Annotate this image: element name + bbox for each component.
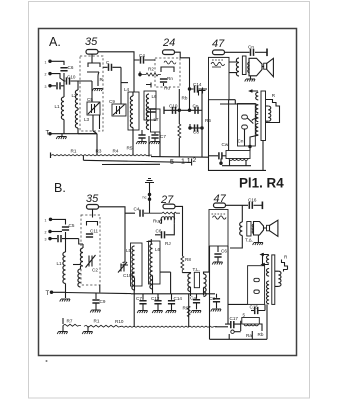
plate border frame [39, 29, 297, 356]
switch box B [248, 266, 265, 305]
svg-text:5: 5 [243, 313, 246, 318]
coil L3 [77, 108, 79, 110]
filament winding box [226, 151, 250, 159]
svg-text:hc: hc [143, 196, 147, 200]
svg-text:L4: L4 [124, 87, 130, 92]
coil L7 [146, 107, 149, 130]
capacitor C5B [62, 227, 69, 230]
svg-text:Cw: Cw [222, 142, 229, 147]
tube 35B top cap [87, 205, 99, 210]
capacitor C6 [60, 68, 67, 71]
svg-text:C16: C16 [248, 198, 257, 203]
terminal 2B [49, 230, 51, 232]
svg-text:L6: L6 [155, 247, 161, 252]
field winding seg1 [256, 92, 259, 100]
T.L. right winding [204, 274, 207, 297]
voice coil gap box [264, 63, 267, 69]
transformer core tall [261, 91, 266, 141]
antenna T bar [266, 49, 268, 57]
capacitor C13m [148, 109, 155, 112]
winding bottom lead [250, 135, 258, 150]
battery line 1 [151, 100, 266, 171]
variable capacitor C9 [112, 104, 126, 116]
svg-text:R10: R10 [115, 319, 124, 324]
ground at input [61, 134, 63, 136]
output transformer B core [247, 222, 251, 237]
svg-text:47: 47 [212, 38, 225, 50]
tube 47B top cap [214, 203, 226, 208]
T.L. core [194, 272, 199, 287]
svg-text:C10: C10 [67, 75, 76, 80]
wire cap into tube [91, 54, 93, 63]
capacitor C14 [190, 88, 208, 90]
riser from L6B [152, 290, 154, 294]
svg-text:C4: C4 [139, 53, 145, 58]
tube 47 grid dashes [212, 59, 224, 61]
field coil arrow 1 [250, 90, 259, 93]
svg-text:3: 3 [45, 85, 47, 89]
voice coil gap B [267, 225, 270, 231]
svg-text:C11: C11 [90, 229, 99, 234]
ground under driver [250, 76, 252, 79]
speaker B driver bell [254, 222, 264, 236]
transformer B core tall [272, 255, 275, 305]
variable cap C10B [118, 262, 127, 273]
svg-text:B.: B. [54, 181, 66, 195]
grid coil B [80, 248, 83, 266]
svg-text:L3: L3 [84, 117, 90, 122]
svg-text:C6: C6 [221, 249, 227, 254]
svg-text:C6: C6 [156, 229, 162, 234]
bottom bus B wavy [120, 326, 217, 327]
svg-text:Cn: Cn [193, 104, 199, 109]
coil box L6 [144, 91, 156, 120]
filament winding box B [242, 318, 259, 325]
tube 47 top cap [213, 50, 225, 55]
capacitor C4 [134, 59, 155, 61]
pilot pill 2 [242, 125, 248, 129]
wire cap B right [99, 207, 136, 263]
winding above 27 [160, 217, 175, 224]
svg-text:R1: R1 [71, 149, 77, 154]
coil L2B lower [80, 266, 82, 269]
wire pill top to L4 box [133, 60, 135, 92]
field winding seg2 [256, 105, 259, 113]
pilot pill B1 [254, 278, 259, 281]
grid bar B [147, 239, 152, 244]
svg-text:Cn: Cn [248, 45, 254, 50]
resistor R8 riser [181, 256, 184, 273]
tube 47 heater [211, 62, 225, 65]
winding tap to switch [252, 118, 259, 121]
svg-text:L5: L5 [126, 248, 132, 253]
svg-text:R4: R4 [113, 149, 119, 154]
ground under driver B [257, 235, 259, 242]
battery line 2 [83, 159, 191, 166]
svg-text:C2: C2 [92, 268, 98, 273]
plate riser B down [241, 205, 243, 222]
svg-text:L1: L1 [57, 261, 63, 266]
svg-text:Ca: Ca [190, 296, 196, 301]
terminal 3 [49, 85, 51, 87]
tube 24 heater squiggle [164, 61, 176, 64]
svg-text:35: 35 [86, 193, 99, 205]
primary winding B [266, 256, 269, 264]
cathode cap stub left [199, 88, 206, 96]
capacitor C11 left [138, 135, 145, 138]
risers to bus [97, 132, 160, 157]
capacitor C12B [157, 294, 159, 300]
capacitor C10 input [64, 80, 78, 82]
svg-text:Rn: Rn [167, 76, 173, 81]
svg-text:Ru: Ru [153, 219, 159, 224]
bottom wire B right [210, 246, 268, 339]
pill2 lead [244, 129, 246, 146]
risers to bus B [134, 290, 189, 328]
wire into switch box [228, 303, 248, 305]
capacitor C7 [154, 132, 156, 134]
pilot pill 1 [242, 115, 248, 119]
svg-text:C7: C7 [136, 296, 142, 301]
winding leads [222, 160, 251, 166]
capacitor CaB [196, 294, 198, 299]
tube 27 top cap [163, 204, 175, 209]
riser from speaker area [262, 253, 264, 266]
coil L6 [146, 94, 149, 117]
svg-text:R5: R5 [127, 146, 133, 151]
svg-text:T: T [46, 291, 50, 297]
svg-text:L2: L2 [72, 93, 78, 98]
svg-text:C6: C6 [68, 65, 74, 70]
capacitor C7B [142, 294, 144, 300]
coil L4 [130, 96, 133, 128]
tube 35 plate hook [88, 63, 100, 67]
coil box L4 [128, 92, 139, 130]
capacitor Cn out [251, 49, 254, 56]
wire 47 cap to Cn [225, 51, 250, 53]
capacitor C13 [57, 82, 60, 89]
field winding seg4 [256, 124, 259, 135]
svg-text:C14: C14 [193, 82, 202, 87]
wire grid to coil [79, 239, 83, 244]
svg-text:1: 1 [187, 158, 191, 165]
grid leak wavy to 27 [144, 212, 180, 214]
grid capacitor Rn [160, 79, 167, 82]
svg-text:C9: C9 [100, 299, 106, 304]
caps row top wire [131, 293, 215, 295]
capacitor C10b [173, 107, 176, 114]
svg-text:C9: C9 [109, 99, 115, 104]
tube 47 box [209, 57, 230, 99]
coil box L7 [151, 109, 161, 132]
svg-text:R1: R1 [94, 319, 100, 324]
T bar B [261, 202, 263, 210]
tube 47B box [209, 210, 228, 247]
capacitor Cn [191, 109, 202, 111]
svg-text:A.: A. [49, 35, 61, 49]
middle winding B [266, 269, 269, 277]
tube 24 plate hook [161, 67, 174, 72]
capacitor C8B [216, 294, 218, 298]
ground at TB [60, 299, 70, 302]
output transformer primary [236, 58, 239, 76]
terminal 1B [49, 218, 51, 220]
field winding seg3 [256, 114, 259, 122]
battery line 3 [102, 163, 160, 165]
output transformer core [242, 56, 246, 75]
svg-text:2: 2 [45, 231, 47, 235]
winding feed wire [220, 104, 258, 105]
svg-text:Rb: Rb [182, 96, 188, 101]
tube 35B plate hook [87, 222, 98, 226]
capacitor Cw [209, 155, 219, 157]
speaker cone B [270, 220, 278, 236]
svg-text:24: 24 [162, 37, 175, 49]
capacitor plate bar [139, 72, 141, 77]
tube 35B shield dashed [81, 215, 100, 285]
capacitor C8 [190, 127, 202, 129]
bus to riser joint [215, 326, 228, 328]
svg-text:C4: C4 [134, 207, 140, 212]
svg-text:5: 5 [170, 159, 174, 166]
svg-text:C10: C10 [123, 273, 132, 278]
svg-text:C17: C17 [230, 316, 239, 321]
svg-text:R3: R3 [96, 149, 102, 154]
switch lever [247, 118, 253, 124]
capacitor C16 [249, 202, 252, 209]
wire top of R5 riser [178, 89, 180, 100]
ground bus left [49, 133, 97, 135]
tube 35 shield (dashed) [80, 56, 103, 131]
svg-text:RJ: RJ [165, 241, 171, 246]
riser tube47B bottom [227, 246, 229, 324]
coil L6B [150, 244, 153, 276]
terminal circles B [231, 330, 234, 333]
grid return bar [146, 83, 164, 88]
svg-text:C12: C12 [151, 296, 160, 301]
connector L1 to tube [73, 264, 81, 266]
terminal 1 [49, 60, 51, 62]
rectifier winding B [266, 281, 269, 304]
riser x170.6 [160, 272, 171, 294]
svg-text:T.L.: T.L. [193, 267, 200, 272]
svg-text:1: 1 [45, 60, 47, 64]
wavy bias chain [51, 155, 152, 156]
power transformer B top arrow 1 [261, 253, 269, 256]
coil L1B [63, 252, 66, 284]
wire 24 cap to plate riser [175, 52, 190, 110]
output transformer B winding [240, 222, 243, 236]
grid dashes 47B [212, 213, 226, 215]
svg-text:Cn: Cn [238, 139, 244, 144]
winding leads B [241, 321, 262, 331]
plate wires to transformer [229, 62, 237, 73]
svg-text:R7: R7 [67, 319, 73, 324]
svg-text:Ru: Ru [164, 86, 170, 91]
svg-text:C7: C7 [160, 134, 166, 139]
speaker cone [267, 58, 274, 76]
capacitor C4B [140, 210, 143, 217]
terminal 3B [49, 237, 51, 239]
bottom left: terminal TB [50, 291, 52, 293]
capacitor C3B [58, 235, 61, 242]
svg-text:C8: C8 [193, 130, 199, 135]
speaker driver bell [249, 58, 262, 76]
svg-text:3: 3 [45, 238, 47, 242]
coil L5B [132, 246, 135, 278]
svg-text:R8: R8 [185, 257, 191, 262]
svg-text:T.Δ.: T.Δ. [245, 238, 253, 243]
switch box [238, 104, 256, 147]
wire to C16 [226, 204, 249, 206]
svg-text:C14: C14 [174, 296, 183, 301]
tube 35 grid bar [87, 72, 99, 86]
wire 27 cap to plate riser [175, 206, 183, 256]
svg-text:35: 35 [85, 36, 98, 48]
svg-text:R2: R2 [148, 67, 154, 72]
ground cathode 35 [92, 89, 102, 92]
capacitor C11B [86, 234, 93, 237]
riser to varcap C9 [120, 67, 122, 104]
resistor R7B [62, 318, 64, 324]
coil L1 [61, 97, 64, 120]
wire shelf [121, 82, 128, 84]
cathode lead to bus [99, 285, 101, 292]
wire 35 cap to C4 [98, 52, 134, 60]
tank box right edge [78, 81, 100, 129]
svg-text:Pl1. R4: Pl1. R4 [239, 176, 284, 191]
T.L. transformer left winding [188, 274, 191, 292]
terminal 2 [49, 72, 51, 74]
wire L5 to varcap [121, 264, 128, 266]
svg-text:Rb: Rb [258, 332, 264, 337]
coupling capacitor C [103, 66, 121, 68]
svg-text:L1: L1 [55, 104, 61, 109]
stray scan speck [46, 360, 48, 362]
svg-text:C10: C10 [169, 104, 178, 109]
antenna mast [145, 179, 154, 214]
tube 24 envelope dashed [155, 58, 180, 87]
variable capacitor C5 [87, 102, 100, 115]
right winding [268, 106, 271, 121]
svg-text:C5: C5 [69, 223, 75, 228]
svg-text:2: 2 [45, 73, 47, 77]
transformer B winding bottom lead [230, 236, 242, 249]
riser x228.6 [228, 100, 230, 151]
capacitor C6B [155, 224, 174, 235]
pilot pill B2 [254, 290, 259, 293]
capacitor C14B [171, 294, 173, 300]
terminal left of chain [50, 153, 52, 159]
riser R5 wavy [178, 100, 180, 124]
svg-text:L6: L6 [152, 94, 158, 99]
right winding B [278, 271, 281, 286]
coil L2 [77, 81, 79, 90]
T.L. leads down [191, 287, 204, 296]
svg-text:1: 1 [45, 218, 47, 222]
capacitor C9B [95, 293, 97, 299]
svg-text:L7: L7 [154, 117, 160, 122]
coil box L5B [131, 243, 143, 286]
capacitor C under 47B [217, 246, 219, 252]
arrow 2 [262, 263, 269, 266]
tube 35 top cap [86, 50, 98, 55]
svg-text:Ra: Ra [246, 333, 252, 338]
variable cap B [86, 255, 96, 268]
coil box L6B [149, 241, 161, 284]
riser x235.3 [229, 100, 235, 104]
tube 24 top cap [163, 50, 175, 55]
riser x202 [201, 89, 203, 157]
svg-text:1: 1 [181, 159, 185, 166]
bias wire with T bar [164, 109, 191, 111]
svg-text:2: 2 [193, 157, 197, 164]
plate riser junction dot [188, 88, 190, 90]
